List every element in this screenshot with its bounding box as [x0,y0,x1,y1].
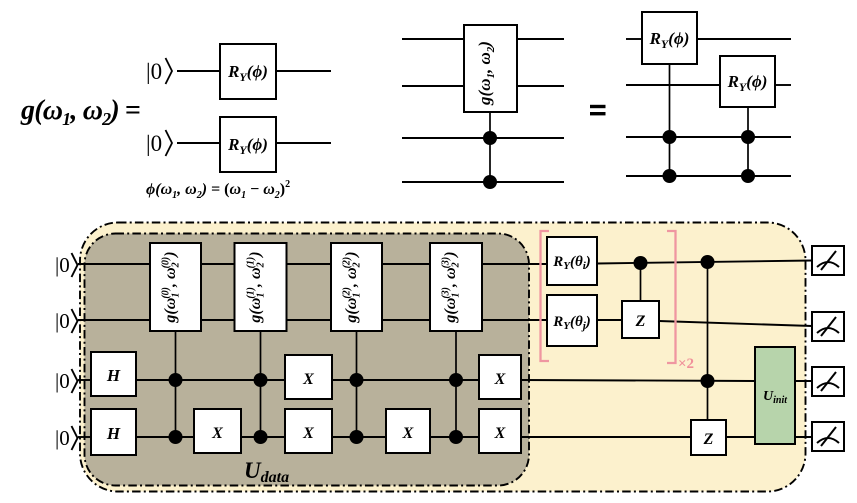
control dot col2 q4 [254,430,268,444]
gate RY(theta_i) [547,237,597,285]
control line CZ 2 [707,262,709,420]
svg-text:ϕ(ω1, ω2) = (ω1 − ω2)2: ϕ(ω1, ω2) = (ω1 − ω2)2 [146,179,290,201]
control dot m3 [483,131,497,145]
gate g block 3 [430,243,482,331]
outer dashed rounded box (ansatz region) [80,223,806,492]
svg-text:RY(θi): RY(θi) [552,254,591,272]
gate X q4 col3 [386,409,430,453]
gate Z q2 [622,301,659,338]
svg-text:Z: Z [635,313,646,330]
control dot m4 [483,175,497,189]
inner dashed rounded box U_data region [85,234,530,486]
wire m2 left [402,85,464,87]
control dot col1 q3 [169,373,183,387]
measurement q1 [812,246,844,275]
gate X q4 col4 [479,409,521,453]
svg-text:|0: |0 [146,59,162,84]
svg-text:RY(ϕ): RY(ϕ) [227,62,268,84]
qubit wire 2 segments [78,320,812,326]
ket |0> b1 [55,253,78,277]
svg-text:X: X [211,425,223,442]
svg-text:RY(ϕ): RY(ϕ) [227,135,268,157]
svg-text:H: H [106,366,121,385]
ket |0> b3 [55,369,78,393]
control dot col4 q4 [449,430,463,444]
svg-text:|0: |0 [55,253,70,277]
svg-text:X: X [302,425,314,442]
pink bracket left [541,231,550,361]
svg-text:×2: ×2 [678,356,694,372]
gate g block 2 [331,243,382,331]
gate U_init [755,347,795,444]
ket |0> b2 [55,309,78,333]
gate Z q4 [691,420,726,455]
phi definition formula [146,179,290,201]
qubit wire 1 segments [78,261,812,265]
svg-text:RY(θj): RY(θj) [552,314,591,332]
control dot r4 b [741,169,755,183]
svg-text:X: X [302,371,314,388]
wire m1 right [517,38,564,40]
svg-text:Z: Z [703,431,714,448]
gate RY(phi) q1 [220,44,276,99]
measurement q2 [812,312,844,341]
wire r3 [626,136,791,138]
control dot col3 q3 [350,373,364,387]
svg-text:RY(ϕ): RY(ϕ) [649,29,690,51]
gate X q3 col4 [479,355,521,399]
gate g block 0 [150,243,201,331]
wire r1 right [697,38,791,40]
control line g4 [455,331,457,437]
control line RY1 [669,64,671,176]
measurement q4 [812,422,844,451]
ket |0> qubit 2 [146,130,172,156]
gate g block 1 [235,243,287,331]
control line from g box [489,112,491,182]
svg-text:|0: |0 [55,426,70,450]
gate X q3 col2 [285,355,332,399]
wire r2 right [775,84,791,86]
control line g3 [356,331,358,437]
gate X q4 col2 [285,409,332,453]
control line CZ 1 [640,263,642,301]
control dot CZ2 a [701,255,715,269]
svg-text:|0: |0 [146,131,162,156]
svg-text:X: X [494,425,506,442]
gate RY(phi) q2 [220,117,276,172]
svg-text:H: H [106,424,121,443]
U_data label [244,458,289,486]
control dot col1 q4 [169,430,183,444]
svg-text:X: X [494,371,506,388]
control line g1 [175,331,177,437]
qubit wire 4 segments [78,436,812,438]
wire m4 [402,181,564,183]
control dot col4 q3 [449,373,463,387]
control dot col2 q3 [254,373,268,387]
wire r2 left [626,84,720,86]
label g(w1,w2)= [20,95,141,129]
svg-text:|0: |0 [55,369,70,393]
wire m2 right [517,85,564,87]
wire q1 right [276,70,331,72]
wire r4 [626,175,791,177]
gate RY(phi) r1 [642,12,697,64]
wire r1 left [626,38,642,40]
equals sign [590,105,606,116]
wire q1 left [177,70,220,72]
gate H q3 [91,352,136,396]
x2 label [678,356,694,372]
qubit wire 3 segments [78,380,812,381]
control line g2 [260,331,262,437]
pink bracket right [667,231,676,363]
control line RY2 [747,107,749,176]
svg-text:RY(ϕ): RY(ϕ) [727,72,768,94]
control dot r4 a [663,169,677,183]
ket |0> b4 [55,426,78,450]
gate g(w1,w2) block [464,25,517,112]
control dot CZ1 [634,256,648,270]
control dot r3 b [741,130,755,144]
svg-text:g(ω1, ω2) =: g(ω1, ω2) = [20,95,141,129]
ket |0> qubit 1 [146,58,172,84]
svg-text:X: X [402,425,414,442]
wire m3 [402,137,564,139]
wire m1 left [402,38,464,40]
gate H q4 [91,409,136,455]
gate RY(phi) r2 [720,56,775,107]
wire q2 left [177,142,220,144]
measurement q3 [812,367,844,396]
control dot r3 a [663,130,677,144]
wire q2 right [276,142,331,144]
control dot CZ2 b [701,374,715,388]
gate RY(theta_j) [547,295,597,346]
control dot col3 q4 [350,430,364,444]
svg-text:|0: |0 [55,309,70,333]
gate X q4 col1 [194,409,241,453]
